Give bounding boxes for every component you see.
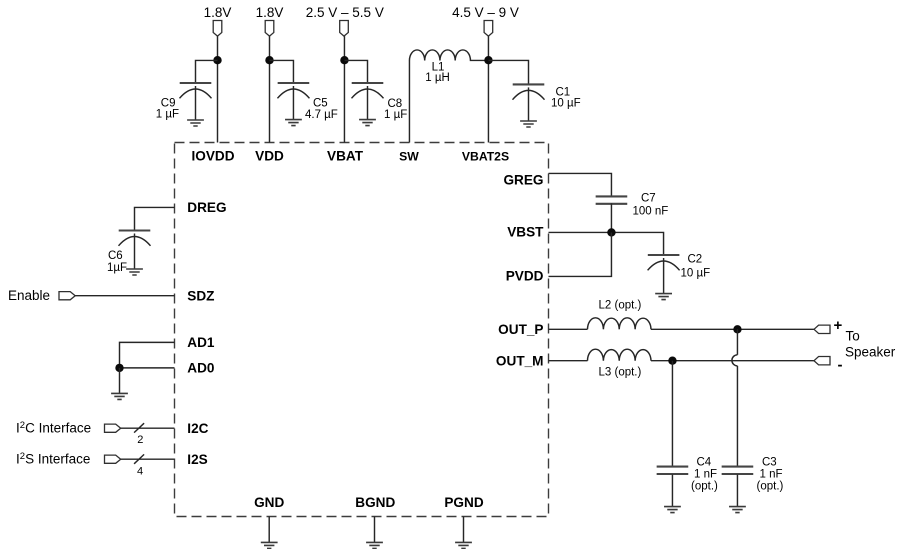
node OUT_P junction [733,325,741,333]
power connector VBAT [340,21,349,37]
svg-text:VBAT: VBAT [327,149,364,164]
ground C9 [187,120,204,126]
svg-text:Enable: Enable [8,288,50,303]
wire SW pin vertical [408,60,410,142]
svg-text:OUT_M: OUT_M [496,353,544,368]
svg-text:10 µF: 10 µF [681,268,711,280]
connector speaker - tag [814,357,830,365]
wire Enable to SDZ [75,295,174,297]
capacitor C5 [277,83,309,120]
node OUT_M junction [668,357,676,365]
wire AD0 branch [120,367,175,369]
svg-text:I2C: I2C [187,421,208,436]
power connector 1.8V IOVDD [213,21,222,37]
wire PGND pin [463,517,465,543]
wire C9 branch [196,60,218,83]
capacitor C3 [722,467,754,474]
svg-text:4: 4 [137,466,143,478]
wire hop [732,355,738,366]
svg-text:10 µF: 10 µF [551,98,581,110]
capacitor C8 [352,83,384,120]
svg-text:SDZ: SDZ [187,288,214,303]
svg-text:1µF: 1µF [107,262,127,274]
wire I2C bus [121,427,175,429]
capacitor C9 [180,83,212,120]
node VBAT junction [340,56,348,64]
svg-text:SW: SW [399,150,419,164]
svg-text:L2 (opt.): L2 (opt.) [599,300,642,312]
wire C1 branch [488,60,528,84]
svg-text:C7: C7 [641,193,656,205]
inductor L2 (opt.) [588,318,652,330]
svg-text:(opt.): (opt.) [691,481,718,493]
svg-text:GND: GND [254,495,284,510]
svg-text:OUT_P: OUT_P [498,322,543,337]
capacitor C4 [657,467,689,474]
node VBST junction [607,228,615,236]
wire AD1 branch [120,342,175,368]
wire VBAT2S rail vertical [487,36,489,142]
ground C2 [655,294,672,300]
ground C3 [729,507,746,513]
svg-text:100 nF: 100 nF [633,206,669,218]
svg-text:L3 (opt.): L3 (opt.) [599,367,642,379]
svg-text:4.5 V – 9 V: 4.5 V – 9 V [452,5,519,20]
svg-text:(opt.): (opt.) [757,481,784,493]
svg-text:1 nF: 1 nF [760,469,783,481]
connector Enable tag [59,292,75,300]
power connector VBAT2S [484,21,493,37]
svg-text:1 µF: 1 µF [384,109,407,121]
svg-text:I2C Interface: I2C Interface [16,420,91,436]
ground GND [261,542,278,548]
wire DREG to C6 [135,207,175,230]
svg-text:C3: C3 [762,457,777,469]
bus slash I2C [134,423,144,432]
wire L2 to speaker + [651,328,814,330]
svg-text:Speaker: Speaker [845,345,896,360]
node AD0/AD1 junction [115,364,123,372]
svg-text:C4: C4 [697,457,712,469]
ground C8 [359,120,376,126]
wire BGND pin [374,517,376,543]
wire OUT_P junction down with hop over OUT_M [736,329,738,355]
svg-text:C6: C6 [108,250,123,262]
wire hop to C3 [736,366,738,467]
power connector 1.8V VDD [265,21,274,37]
svg-text:2.5 V – 5.5 V: 2.5 V – 5.5 V [306,5,384,20]
wire GREG to C7 [549,173,612,196]
svg-text:GREG: GREG [503,172,543,187]
svg-text:-: - [838,357,843,374]
inductor L3 (opt.) [588,349,652,361]
inductor L1 [409,50,488,61]
svg-text:1.8V: 1.8V [256,5,284,20]
svg-text:I2S: I2S [187,452,207,467]
svg-text:PVDD: PVDD [506,269,544,284]
capacitor C2 [648,255,680,294]
node VDD junction [265,56,273,64]
capacitor C7 [596,196,628,203]
wire VBAT rail vertical [343,36,345,142]
svg-text:VBST: VBST [507,225,544,240]
ground C1 [520,121,537,127]
svg-text:PGND: PGND [444,495,483,510]
svg-text:1 µH: 1 µH [425,72,450,84]
wire VDD rail vertical [269,36,271,142]
svg-text:VBAT2S: VBAT2S [462,150,509,164]
svg-text:1.8V: 1.8V [204,5,232,20]
svg-text:I2S Interface: I2S Interface [16,451,90,467]
svg-text:DREG: DREG [187,200,226,215]
bus slash I2S [134,454,144,463]
capacitor C6 [119,231,151,270]
wire C7 to VBST node [610,203,612,232]
wire C3 to ground [736,474,738,506]
wire IOVDD rail vertical [217,36,219,142]
ground AD pins [111,393,128,399]
svg-text:1 µF: 1 µF [156,109,179,121]
svg-text:AD0: AD0 [187,361,214,376]
svg-text:C2: C2 [688,254,703,266]
wire L3 to speaker - [651,360,814,362]
svg-text:C5: C5 [313,98,328,110]
wire C4 to ground [671,474,673,506]
svg-text:4.7 µF: 4.7 µF [305,109,338,121]
wire VBST to C2 [549,232,664,255]
svg-text:IOVDD: IOVDD [191,149,234,164]
wire AD junction to ground [119,368,121,394]
wire GND pin [268,517,270,543]
ground C4 [664,507,681,513]
ground PGND [455,542,472,548]
svg-text:2: 2 [137,434,143,446]
capacitor C1 [513,84,545,121]
connector speaker + tag [814,325,830,333]
svg-text:AD1: AD1 [187,335,215,350]
wire OUT_M to L3 [549,360,588,362]
wire OUT_P to L2 [549,328,588,330]
node IOVDD junction [213,56,221,64]
connector I2C tag [105,424,121,432]
svg-text:BGND: BGND [355,495,395,510]
svg-text:+: + [834,317,843,334]
ground C6 [126,269,143,275]
connector I2S tag [105,455,121,463]
wire I2S bus [121,458,175,460]
IC dashed boundary U1 [175,143,549,517]
wire PVDD to VBST node [549,232,612,276]
node VBAT2S junction [484,56,492,64]
wire C5 branch [270,60,294,83]
svg-text:To: To [846,328,860,343]
svg-text:VDD: VDD [255,149,284,164]
ground BGND [366,542,383,548]
wire OUT_M junction down to C4 [671,361,673,467]
ground C5 [285,120,302,126]
svg-text:1 nF: 1 nF [694,469,717,481]
wire C8 branch [344,60,367,83]
